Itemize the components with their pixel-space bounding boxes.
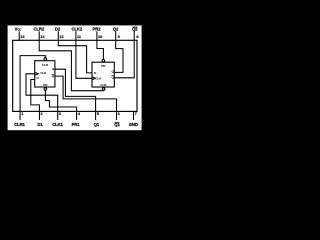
svg-text:D2: D2 [55, 27, 61, 32]
pin 8 lead [133, 32, 135, 41]
svg-text:7: 7 [135, 112, 137, 116]
svg-text:10: 10 [98, 35, 102, 39]
svg-text:CLK: CLK [95, 76, 102, 80]
svg-text:2: 2 [41, 112, 43, 116]
svg-text:D1: D1 [37, 122, 43, 127]
svg-text:Q1: Q1 [94, 122, 100, 127]
pin 12 lead [57, 32, 59, 41]
wire Q2 pin9 to U2 Q [114, 40, 123, 72]
U1 Qbar overbar [52, 73, 54, 75]
flip-flop U1 box [35, 61, 55, 87]
pin 1 lead [19, 111, 21, 119]
pin 7 lead [133, 111, 135, 119]
wire PR2 pin10 to U2 PR [97, 40, 104, 59]
flip-flop U2 box [92, 62, 114, 87]
package outline DIP-14 [13, 40, 137, 111]
svg-text:PR1: PR1 [72, 122, 81, 127]
wire CLR1 pin1 to U1 CLR [20, 56, 45, 112]
svg-text:VCC: VCC [15, 27, 22, 32]
svg-text:CLR: CLR [100, 83, 107, 87]
U2 PR bubble [102, 60, 105, 63]
svg-text:CLK1: CLK1 [52, 122, 63, 127]
pin 14 lead [18, 32, 20, 41]
svg-text:Q2: Q2 [113, 27, 119, 32]
pin 2 lead [38, 111, 40, 119]
wire Q1bar U1 Qbar to pin6 [55, 76, 117, 111]
wire CLR2 pin13 to U2 CLR [39, 40, 103, 90]
pin 9 lead [115, 32, 117, 41]
pin 11 lead [75, 32, 77, 41]
svg-text:CLK: CLK [40, 71, 47, 75]
overbar Q1bar [115, 122, 120, 124]
svg-text:GND: GND [129, 122, 138, 127]
pin 10 lead [96, 32, 98, 41]
wire CLK1 pin3 to U1 CLK [26, 74, 58, 112]
U2 Qbar overbar [112, 75, 114, 77]
pin 3 lead [57, 111, 59, 119]
U2 clock wedge [93, 77, 95, 79]
svg-text:9: 9 [118, 35, 120, 39]
U1 clock wedge [36, 73, 39, 75]
U1 PR bubble [44, 88, 47, 91]
svg-text:CLR: CLR [42, 63, 49, 67]
pin 5 lead [95, 111, 97, 119]
wire D2 pin12 to U2 D [58, 40, 92, 73]
wire Q2bar pin8 to U2 Qbar [114, 40, 134, 78]
svg-text:CLR1: CLR1 [14, 122, 25, 127]
pin 4 lead [76, 111, 78, 119]
pin 6 lead [116, 111, 118, 119]
white page area [8, 25, 142, 130]
svg-text:CLK2: CLK2 [71, 27, 82, 32]
wire D1 pin2 to U1 D [31, 80, 40, 112]
wire CLK2 pin11 to U2 CLK [76, 40, 92, 78]
pin 13 lead [38, 32, 40, 41]
svg-text:3: 3 [59, 112, 61, 116]
wire PR1 pin4 to U1 PR [45, 90, 76, 111]
svg-text:13: 13 [40, 35, 44, 39]
U1 CLR bubble [44, 58, 47, 61]
svg-text:6: 6 [118, 112, 120, 116]
wire Q1 U1 Q to pin5 [55, 69, 96, 111]
svg-text:CLR2: CLR2 [33, 27, 44, 32]
U2 CLR bubble [102, 88, 105, 91]
svg-text:PR2: PR2 [93, 27, 102, 32]
svg-text:12: 12 [59, 35, 63, 39]
overbar Q2bar [132, 26, 137, 28]
